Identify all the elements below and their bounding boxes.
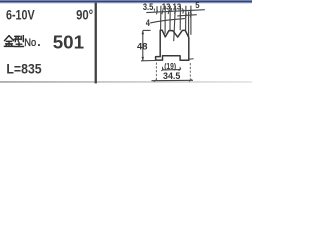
svg-text:No: No bbox=[24, 37, 36, 49]
svg-text:.: . bbox=[37, 35, 40, 49]
svg-text:90°: 90° bbox=[76, 7, 93, 22]
svg-text:34.5: 34.5 bbox=[163, 71, 180, 81]
svg-text:(19): (19) bbox=[164, 61, 176, 71]
svg-text:48: 48 bbox=[137, 41, 147, 52]
svg-text:L=835: L=835 bbox=[6, 61, 41, 77]
svg-text:13,13,: 13,13, bbox=[162, 2, 184, 11]
svg-text:501: 501 bbox=[53, 31, 84, 52]
svg-text:4: 4 bbox=[146, 18, 151, 28]
svg-text:6-10V: 6-10V bbox=[6, 7, 35, 23]
svg-text:5: 5 bbox=[195, 1, 200, 10]
svg-text:3.5,: 3.5, bbox=[143, 2, 155, 12]
